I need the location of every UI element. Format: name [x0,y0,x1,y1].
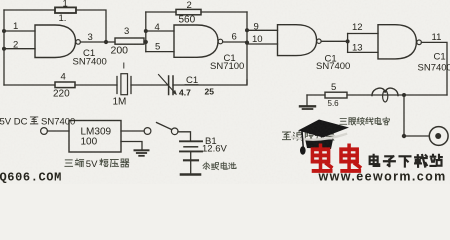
wire pin12-13 vertical [347,34,349,53]
wire top feedback left [4,10,106,42]
wire regulator output [121,130,144,132]
svg-text:1: 1 [63,0,68,10]
svg-text:3: 3 [88,32,93,43]
svg-text:4.7: 4.7 [179,88,191,98]
nand gate U1D [378,25,416,59]
svg-text:SN7400: SN7400 [73,57,107,68]
crystal Y1 1M [117,63,131,95]
label mercury battery [203,162,236,169]
wire pin10 stub [247,43,278,45]
svg-text:220: 220 [53,89,70,100]
svg-text:2: 2 [13,40,18,51]
svg-text:100: 100 [81,137,98,148]
wire switch to battery [178,132,191,140]
resistor R3 200 [115,38,144,44]
svg-text:5: 5 [331,82,336,93]
svg-text:SN7400: SN7400 [316,61,350,72]
watermark site name [370,155,442,167]
wire left vertical [3,10,5,85]
battery B1 [180,141,202,174]
wire output net right side [307,94,447,96]
wire gate3 output [321,40,347,42]
svg-text:10: 10 [252,34,263,45]
ground right (at R5) [300,95,315,109]
wire pin4 stub [146,30,174,32]
wire tap to jack [404,95,429,136]
wire pin12 stub [348,33,378,35]
svg-text:SN7100: SN7100 [210,61,244,72]
svg-text:9: 9 [254,22,259,33]
svg-text:11: 11 [432,32,442,43]
svg-text:25: 25 [205,87,215,97]
resistor R2 560 [176,9,201,14]
svg-text:560: 560 [179,15,196,26]
svg-text:1M: 1M [113,97,127,108]
wire pin13 stub [348,51,378,53]
output jack J1 [429,127,448,146]
wire pin2 stub [4,48,35,50]
label 5V DC to SN7400 [0,117,75,128]
resistor R5 5.6 [325,92,347,98]
wire gate4 output to right edge [421,42,447,95]
wire node B vertical [246,12,248,84]
twisted-wire capacitor loops [372,88,398,95]
svg-text:5V DC: 5V DC [0,117,28,128]
wire R3 to node A [144,41,146,43]
resistor R4 220 [55,82,75,88]
watermark graduation cap [292,120,349,155]
svg-text:SN7400: SN7400 [418,63,450,74]
svg-text:4: 4 [155,22,160,33]
svg-text:www.eeworm.com: www.eeworm.com [318,170,447,184]
ground regulator [135,150,149,156]
svg-text:200: 200 [111,45,129,57]
label regulator caption 3-terminal 5V regulator [65,159,129,170]
svg-text:13: 13 [352,43,363,54]
svg-text:1: 1 [13,21,18,32]
svg-text:5.6: 5.6 [328,99,340,108]
wire pin1 stub [4,30,35,32]
svg-text:Q606.COM: Q606.COM [0,171,62,185]
wire gate2 output [223,41,247,43]
text labels latin [13,0,450,155]
svg-text:12: 12 [352,22,363,33]
terminal input 5V [41,128,48,135]
regulator U2 LM309 box [69,121,121,153]
svg-text:3: 3 [124,26,129,37]
label to band switch [283,132,335,141]
svg-text:5: 5 [155,42,160,53]
svg-text:12.6V: 12.6V [202,144,227,155]
wire gate1 output [80,41,115,43]
trimmer capacitor C1 4.7-25 [159,75,177,96]
regulator ground branch [121,142,142,150]
label twisted-wire capacitor [340,117,390,125]
svg-text:SN7400: SN7400 [41,117,75,128]
svg-text:6: 6 [232,32,237,43]
svg-text:1.: 1. [59,13,67,24]
svg-text:C1: C1 [434,52,446,63]
nand gate U1C [278,25,317,56]
wire pin9 stub [247,29,278,31]
resistor R1 [55,7,76,13]
nand gate U1B [174,25,218,57]
wire node A vertical [145,12,147,52]
svg-text:2: 2 [187,0,192,11]
switch S1 [157,123,172,130]
wire input to regulator [47,130,69,132]
svg-text:5V: 5V [86,159,98,170]
terminal regulator out [144,128,151,135]
scan noise texture (decorative) [0,0,450,184]
svg-text:4: 4 [61,72,66,83]
wire 560 top branch [146,11,247,13]
wire pin5 stub [146,51,174,53]
nand gate U1A [35,25,76,58]
watermark chongchong red [312,145,359,171]
wire bottom feedback [4,80,247,85]
